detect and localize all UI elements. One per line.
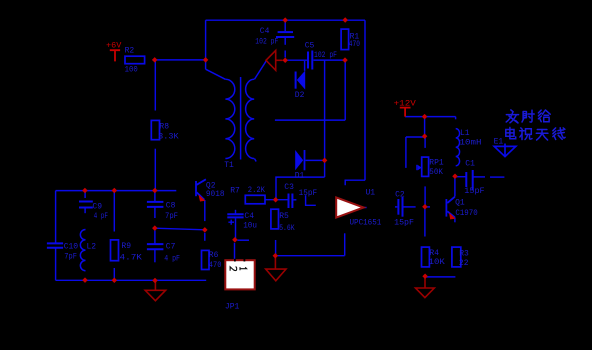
svg-text:C10: C10 [64, 243, 79, 252]
svg-text:R7: R7 [230, 187, 240, 196]
svg-text:7pF: 7pF [64, 253, 77, 262]
svg-text:7pF: 7pF [165, 212, 178, 221]
svg-text:10mH: 10mH [460, 138, 482, 147]
svg-text:C3: C3 [284, 183, 294, 192]
svg-text:+12V: +12V [394, 98, 417, 108]
svg-text:C1970: C1970 [455, 209, 477, 218]
svg-text:E1: E1 [494, 137, 504, 146]
svg-text:R2: R2 [125, 47, 135, 56]
svg-text:L2: L2 [87, 243, 97, 252]
svg-text:10K: 10K [429, 258, 445, 267]
svg-text:C8: C8 [166, 202, 176, 211]
svg-text:JP1: JP1 [225, 303, 240, 312]
svg-text:R5: R5 [279, 212, 289, 221]
svg-text:470: 470 [209, 261, 222, 270]
svg-text:RP1: RP1 [429, 158, 444, 167]
svg-text:D1: D1 [295, 172, 305, 181]
svg-text:D2: D2 [295, 91, 305, 100]
svg-text:U1: U1 [366, 189, 376, 198]
svg-text:4 pF: 4 pF [94, 212, 109, 221]
svg-text:T1: T1 [224, 161, 234, 170]
svg-text:L1: L1 [460, 129, 470, 138]
svg-text:R4: R4 [429, 249, 439, 258]
svg-text:R6: R6 [209, 251, 219, 260]
svg-text:R3: R3 [459, 249, 469, 258]
svg-text:470: 470 [349, 40, 360, 49]
svg-text:C9: C9 [92, 203, 102, 212]
svg-text:R9: R9 [121, 242, 131, 251]
svg-text:C4: C4 [260, 27, 270, 36]
svg-text:UPC1651: UPC1651 [350, 219, 382, 228]
svg-text:102 pF: 102 pF [255, 37, 278, 46]
svg-text:15pF: 15pF [394, 219, 414, 228]
svg-text:100: 100 [125, 65, 138, 74]
svg-text:C4: C4 [244, 212, 254, 221]
svg-text:15pF: 15pF [464, 187, 485, 196]
svg-text:50K: 50K [429, 168, 443, 177]
svg-text:9018: 9018 [206, 190, 225, 199]
svg-text:15pF: 15pF [299, 189, 318, 198]
svg-text:C1: C1 [465, 159, 475, 168]
svg-text:C5: C5 [305, 42, 315, 51]
svg-text:C7: C7 [166, 243, 176, 252]
svg-text:C2: C2 [395, 190, 405, 199]
svg-text:102 pF: 102 pF [314, 51, 337, 60]
svg-text:4 pF: 4 pF [164, 254, 180, 263]
svg-text:10u: 10u [243, 221, 257, 230]
svg-text:4.7K: 4.7K [120, 254, 143, 263]
svg-text:5.6K: 5.6K [279, 224, 295, 233]
svg-text:Q1: Q1 [455, 199, 465, 208]
svg-text:2.2K: 2.2K [248, 186, 265, 195]
svg-text:+6V: +6V [106, 41, 122, 51]
svg-text:R8: R8 [159, 123, 169, 132]
svg-text:3.3K: 3.3K [158, 132, 179, 141]
svg-text:22: 22 [459, 259, 469, 268]
